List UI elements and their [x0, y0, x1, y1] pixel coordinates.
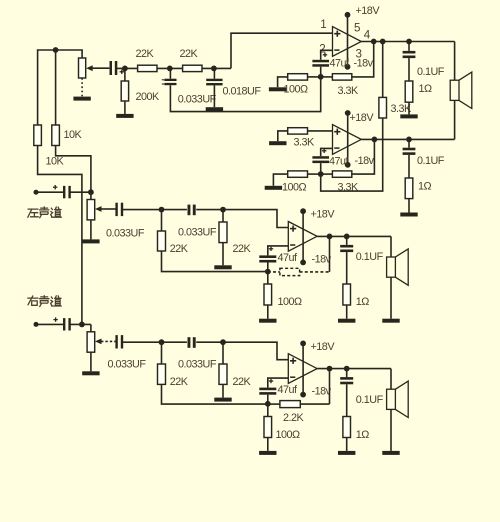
svg-text:+18V: +18V	[311, 209, 336, 221]
svg-text:47uf: 47uf	[329, 155, 350, 167]
svg-text:1Ω: 1Ω	[419, 83, 433, 95]
svg-text:22K: 22K	[180, 48, 199, 60]
svg-text:22K: 22K	[136, 48, 155, 60]
svg-text:0.033UF: 0.033UF	[178, 226, 217, 238]
svg-text:47uf: 47uf	[278, 384, 299, 396]
svg-text:1Ω: 1Ω	[356, 296, 370, 308]
svg-text:-18v: -18v	[312, 386, 332, 398]
svg-text:100Ω: 100Ω	[284, 83, 309, 95]
svg-text:+18V: +18V	[350, 112, 375, 124]
svg-text:4: 4	[364, 29, 371, 42]
svg-text:100Ω: 100Ω	[276, 429, 301, 441]
svg-text:100Ω: 100Ω	[282, 181, 307, 193]
svg-text:1: 1	[320, 18, 326, 31]
svg-text:-18v: -18v	[312, 253, 332, 265]
svg-text:2.2K: 2.2K	[283, 412, 305, 424]
svg-text:47uf: 47uf	[278, 252, 299, 264]
svg-text:+18V: +18V	[356, 5, 381, 17]
svg-text:22K: 22K	[233, 243, 252, 255]
svg-text:0.033UF: 0.033UF	[178, 94, 217, 106]
svg-text:3.3K: 3.3K	[338, 85, 360, 97]
svg-text:3.3K: 3.3K	[338, 182, 360, 194]
svg-text:10K: 10K	[64, 129, 83, 141]
svg-text:0.1UF: 0.1UF	[356, 394, 384, 406]
svg-text:1Ω: 1Ω	[356, 429, 370, 441]
svg-text:22K: 22K	[170, 376, 189, 388]
svg-text:0.033UF: 0.033UF	[108, 359, 147, 371]
svg-text:0.033UF: 0.033UF	[178, 358, 217, 370]
svg-text:0.033UF: 0.033UF	[106, 227, 145, 239]
svg-text:+18V: +18V	[311, 341, 336, 353]
svg-text:200K: 200K	[136, 91, 161, 103]
svg-text:100Ω: 100Ω	[278, 296, 303, 308]
svg-text:0.018UF: 0.018UF	[223, 86, 262, 98]
svg-text:5: 5	[354, 21, 360, 34]
svg-text:3.3K: 3.3K	[294, 136, 316, 148]
svg-text:-18v: -18v	[355, 155, 375, 167]
svg-text:47uf: 47uf	[330, 57, 351, 69]
svg-text:0.1UF: 0.1UF	[417, 66, 445, 78]
svg-text:0.1UF: 0.1UF	[417, 155, 445, 167]
svg-text:22K: 22K	[170, 243, 189, 255]
svg-text:10K: 10K	[46, 156, 65, 168]
svg-text:-18v: -18v	[354, 58, 374, 70]
svg-text:22K: 22K	[233, 376, 252, 388]
svg-text:0.1UF: 0.1UF	[356, 251, 384, 263]
svg-text:1Ω: 1Ω	[418, 180, 432, 192]
